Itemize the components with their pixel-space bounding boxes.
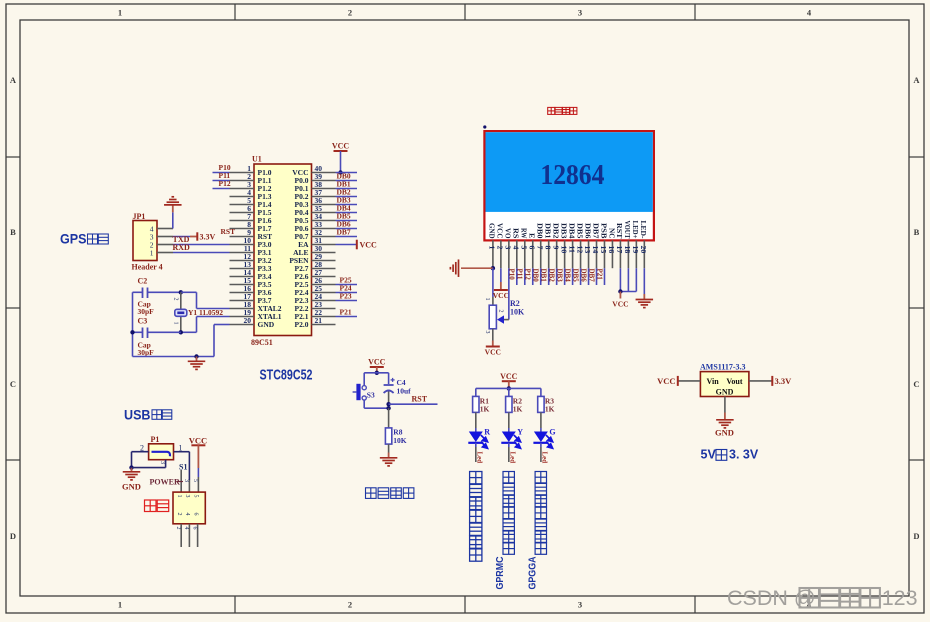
power port VCC under R2 (486, 346, 500, 348)
svg-text:P23: P23 (340, 292, 352, 301)
resistor R1 body (473, 396, 479, 412)
svg-text:DB0: DB0 (532, 269, 540, 283)
svg-text:Vout: Vout (726, 377, 742, 386)
svg-text:GND: GND (488, 223, 496, 239)
svg-text:D: D (913, 531, 919, 541)
svg-text:JP1: JP1 (133, 212, 146, 221)
switch S1 left pin (180, 470, 182, 492)
node ground rail junction (194, 354, 198, 358)
svg-text:3: 3 (484, 331, 490, 334)
svg-text:DB6: DB6 (583, 223, 591, 239)
op IC U1 STC89C52 body (254, 164, 312, 336)
svg-text:RST: RST (615, 223, 623, 239)
wire U1 pin37 DB2 (336, 196, 358, 198)
svg-text:POWER: POWER (150, 478, 180, 487)
wire LCD pin6 (532, 268, 534, 285)
node LED+ VCC junction (618, 289, 622, 293)
wire LCD pin8 (548, 268, 550, 285)
svg-text:DB3: DB3 (559, 223, 567, 239)
svg-text:5: 5 (192, 479, 198, 482)
svg-text:6: 6 (527, 246, 536, 250)
JP1 pin stubs (157, 228, 173, 230)
wire LCD pin13 (588, 268, 590, 285)
wire Vout to 3.3V (749, 380, 772, 382)
svg-text:RS: RS (512, 228, 520, 239)
svg-text:3: 3 (578, 8, 582, 18)
svg-text:1: 1 (150, 249, 154, 258)
R2 wiper arrow (503, 319, 509, 321)
node LCD pin1 GND junction (491, 266, 495, 270)
svg-text:LED+: LED+ (631, 221, 639, 239)
svg-text:GND: GND (716, 388, 734, 397)
svg-text:D: D (10, 531, 16, 541)
svg-text:P21: P21 (595, 269, 603, 281)
svg-text:LED-: LED- (639, 221, 647, 240)
LCD pin stubs 1-20 (492, 240, 494, 268)
svg-text:C2: C2 (138, 277, 148, 286)
svg-text:GND: GND (258, 320, 275, 329)
svg-text:VCC: VCC (485, 348, 501, 357)
svg-text:5: 5 (519, 246, 528, 250)
wire U1 pin38 DB1 (336, 188, 358, 190)
vertical label GPGGA数据有效指示灯 (535, 472, 546, 483)
svg-text:R: R (484, 428, 490, 437)
svg-text:VCC: VCC (332, 142, 350, 151)
LCD module body (484, 131, 654, 240)
wire junction to P1 pin3 (132, 467, 166, 469)
wire U1 pin3 P1.2 (213, 188, 230, 190)
svg-text:1: 1 (488, 246, 497, 250)
svg-text:VCC: VCC (189, 436, 207, 446)
vertical label GPRMC数据有效指示灯 (503, 472, 514, 483)
connector JP1 body (133, 221, 157, 261)
svg-text:GND: GND (122, 482, 141, 492)
svg-text:19: 19 (631, 246, 640, 254)
LED D2 (Y) (502, 432, 516, 443)
svg-text:4: 4 (184, 513, 190, 516)
svg-text:DB1: DB1 (539, 269, 547, 283)
svg-text:A: A (10, 75, 17, 85)
svg-text:S1: S1 (179, 463, 187, 472)
svg-text:DB2: DB2 (551, 223, 559, 239)
wire U1 pin36 DB3 (336, 204, 358, 206)
wire LCD pin18 VOUT (627, 268, 629, 291)
row tick marks right (909, 156, 924, 158)
svg-text:10uf: 10uf (397, 387, 412, 396)
LED cathode wire (475, 447, 477, 462)
wire RXD JP1 pin1 to U1 pin11 (173, 252, 230, 254)
wire U1 pin40 VCC (336, 172, 358, 174)
wire rail down to R3 (540, 388, 542, 396)
ground reset circuit (380, 457, 398, 459)
R8 bottom pin to ground (388, 444, 390, 452)
wire rail down to R1 (475, 388, 477, 396)
svg-text:P12: P12 (219, 179, 231, 188)
svg-text:Y: Y (517, 428, 523, 437)
capacitor C2 (142, 288, 144, 299)
svg-text:16: 16 (607, 246, 616, 254)
svg-text:20: 20 (244, 316, 252, 325)
node C3 left junction (130, 330, 134, 334)
power port 3.3V at JP1 pin3 (190, 236, 197, 238)
svg-text:14: 14 (591, 246, 600, 254)
wire C2 left to corner (133, 291, 143, 293)
svg-text:VCC: VCC (612, 300, 628, 309)
svg-text:VCC: VCC (368, 358, 386, 367)
svg-text:Y1 11.0592: Y1 11.0592 (188, 308, 223, 317)
svg-text:STC89C52: STC89C52 (260, 367, 313, 384)
wire LCD pin2 VCC (500, 268, 502, 282)
node RST junction upper (386, 402, 390, 406)
wire bottom ground rail (133, 356, 215, 358)
svg-text:1K: 1K (480, 405, 490, 414)
wire U1 pin35 DB4 (336, 212, 358, 214)
svg-text:89C51: 89C51 (251, 338, 273, 347)
wire U1 pin39 DB0 (336, 180, 358, 182)
svg-text:3: 3 (578, 600, 582, 610)
R2 bottom pin to VCC (492, 329, 494, 341)
svg-text:2: 2 (348, 600, 352, 610)
svg-text:3: 3 (184, 495, 190, 498)
svg-text:DB4: DB4 (563, 269, 571, 283)
wire JP1 pin4 to ground (172, 212, 174, 228)
svg-text:4: 4 (512, 246, 521, 250)
wire R1 to LED (475, 412, 477, 428)
svg-text:2: 2 (496, 246, 505, 250)
svg-text:DB2: DB2 (547, 269, 555, 283)
resistor R3 body (538, 396, 544, 412)
svg-text:3.3V: 3.3V (200, 233, 216, 242)
switch S1 body (173, 492, 205, 524)
column tick marks bottom (234, 596, 236, 613)
svg-text:GND: GND (715, 428, 734, 438)
svg-text:10K: 10K (510, 308, 525, 317)
wire LED VCC rail (476, 387, 541, 389)
svg-text:GPGGA: GPGGA (527, 557, 538, 590)
node crystal top junction (179, 290, 183, 294)
LED cathode wire (508, 447, 510, 462)
P1 switch symbol (152, 452, 171, 457)
ground AMS1117 (716, 419, 734, 421)
wire LCD pin9 (556, 268, 558, 285)
svg-text:A: A (913, 75, 920, 85)
wire P1 pin1 right (174, 451, 190, 453)
wire U1 pin24 P23 (336, 300, 358, 302)
wire U1 pin2 P1.1 (213, 180, 230, 182)
wire VO column to wiper (508, 319, 510, 321)
svg-text:11: 11 (567, 246, 576, 253)
svg-text:Led: Led (509, 452, 517, 464)
ground at JP1 pin4 (flipped) (172, 205, 174, 212)
power supply label 电源 (red) (145, 500, 157, 512)
C4 bottom pin (388, 392, 390, 404)
svg-text:GPRMC: GPRMC (495, 557, 506, 590)
svg-text:VCC: VCC (657, 376, 675, 386)
svg-text:2: 2 (173, 298, 179, 301)
node VCC pin40 junction (338, 170, 342, 174)
node LED rail junction (507, 386, 511, 390)
svg-text:7: 7 (535, 246, 544, 250)
LED D3 (G) (534, 432, 548, 443)
svg-text:DB6: DB6 (579, 269, 587, 283)
power port VCC under LCD pin17 (619, 292, 621, 299)
svg-text:21: 21 (315, 316, 323, 325)
capacitor C3 (142, 328, 144, 339)
svg-text:DB5: DB5 (571, 269, 579, 283)
svg-text:NC: NC (607, 228, 615, 239)
wire LCD pin1 down to R2 top (492, 268, 494, 297)
svg-text:3: 3 (183, 479, 189, 482)
svg-text:1: 1 (118, 8, 122, 18)
svg-text:1: 1 (484, 298, 490, 301)
wire down to switch S3 (363, 373, 365, 386)
svg-text:17: 17 (615, 246, 624, 254)
svg-text:P1: P1 (151, 435, 160, 444)
node RST junction lower (386, 406, 390, 410)
svg-text:1: 1 (173, 322, 179, 325)
wire LCD pin17 RST (619, 268, 621, 291)
svg-text:18: 18 (623, 246, 632, 254)
svg-text:10: 10 (559, 246, 568, 254)
svg-text:9: 9 (551, 246, 560, 250)
svg-text:20: 20 (639, 246, 648, 254)
regulator AMS1117 body (700, 372, 749, 397)
ground under LCD pin20 (643, 294, 645, 299)
LED cathode wire (540, 447, 542, 462)
wire rail down to R2 (508, 388, 510, 396)
svg-text:C3: C3 (138, 317, 148, 326)
wire U1 pin22 P21 (336, 316, 358, 318)
svg-text:G: G (549, 428, 555, 437)
svg-text:DB4: DB4 (567, 223, 575, 239)
LED D1 (R) (469, 432, 483, 443)
ground left of LCD (rotated) (458, 259, 460, 277)
wire JP1 pin3 to 3.3V (173, 236, 190, 238)
svg-text:DB1: DB1 (543, 223, 551, 239)
wire LCD pin12 (580, 268, 582, 285)
svg-text:3: 3 (504, 246, 513, 250)
svg-text:RST: RST (412, 395, 428, 404)
wire junction to R8 (388, 408, 390, 428)
svg-text:1K: 1K (545, 405, 555, 414)
svg-text:1: 1 (176, 495, 182, 498)
svg-text:2: 2 (498, 310, 504, 313)
svg-text:AMS1117-3.3: AMS1117-3.3 (700, 363, 746, 372)
node VCC reset junction (375, 371, 379, 375)
U1 left pin stubs 1-20 (230, 172, 255, 174)
resistor R8 body (385, 428, 391, 444)
column tick marks top (234, 4, 236, 20)
svg-text:P11: P11 (516, 269, 524, 280)
svg-text:B: B (10, 227, 16, 237)
power port VCC under LCD pin2 (500, 282, 502, 290)
wire LCD pin11 (572, 268, 574, 285)
svg-text:PSB: PSB (599, 223, 607, 239)
U1 right pin stubs 40-21 (312, 172, 336, 174)
svg-text:123: 123 (882, 586, 918, 610)
svg-text:1: 1 (118, 600, 122, 610)
wire VCC to Vin (679, 380, 701, 382)
svg-text:8: 8 (543, 246, 552, 250)
wire C3 right to crystal bottom (148, 331, 181, 333)
wire U1 pin34 DB5 (336, 220, 358, 222)
svg-text:2: 2 (175, 527, 181, 530)
LED emission arrows G (546, 435, 553, 448)
wire RST out (389, 403, 438, 405)
LED emission arrows Y (514, 435, 521, 448)
wire U1 pin1 P1.0 (213, 172, 230, 174)
svg-text:C: C (10, 379, 16, 389)
svg-text:30pF: 30pF (138, 348, 155, 357)
svg-text:3. 3V: 3. 3V (729, 448, 759, 462)
svg-text:15: 15 (599, 246, 608, 254)
wire LCD pin1 to left ground (461, 267, 493, 269)
svg-text:6: 6 (193, 513, 199, 516)
svg-text:P21: P21 (340, 308, 352, 317)
svg-text:2: 2 (348, 8, 352, 18)
wire C3 left (133, 331, 143, 333)
row tick marks left (6, 156, 20, 158)
potentiometer R2 body (489, 305, 496, 329)
wire C2 right to crystal top (148, 291, 181, 293)
svg-text:RW: RW (520, 228, 528, 239)
svg-text:DB7: DB7 (337, 228, 351, 237)
wire U1 pin32 DB7 (336, 236, 358, 238)
svg-text:Led: Led (541, 452, 549, 464)
svg-text:12: 12 (575, 246, 584, 254)
svg-text:10K: 10K (393, 436, 407, 445)
svg-text:12864: 12864 (540, 159, 604, 191)
svg-text:U1: U1 (252, 155, 262, 164)
crystal Y1 pins (180, 292, 182, 309)
wire LCD pin3 VO down (508, 268, 510, 319)
wire R3 to LED (540, 412, 542, 428)
wire LCD pin14 (596, 268, 598, 285)
svg-text:DB3: DB3 (555, 269, 563, 283)
wire U1 pin25 P24 (336, 292, 358, 294)
node crystal bottom junction (179, 330, 183, 334)
svg-text:DB0: DB0 (536, 223, 544, 239)
svg-text:4: 4 (183, 527, 189, 530)
wire crystal top to XTAL2 corner (181, 291, 197, 293)
svg-text:Led: Led (476, 452, 484, 464)
wire LCD pin4 (516, 268, 518, 285)
svg-text:Header 4: Header 4 (132, 263, 163, 272)
wire AMS1117 GND down (724, 397, 726, 413)
wire left vertical C2-C3-ground (132, 292, 134, 356)
wire U1 pin33 DB6 (336, 228, 358, 230)
vertical label 接收数据指示灯 (470, 472, 482, 484)
svg-text:5: 5 (193, 495, 199, 498)
svg-text:E: E (528, 233, 536, 239)
ground USB GND (131, 468, 133, 472)
capacitor C4 polarized (388, 373, 390, 384)
wire U1 pin20 GND down (214, 324, 230, 326)
crystal Y1 body (175, 309, 187, 316)
ground crystal circuit (196, 357, 198, 362)
svg-text:RST: RST (221, 227, 236, 236)
svg-text:5V: 5V (701, 448, 717, 462)
svg-text:GPS: GPS (60, 231, 87, 247)
svg-text:RXD: RXD (173, 243, 191, 252)
power port VCC at EA (356, 240, 358, 250)
svg-text:DB7: DB7 (591, 223, 599, 239)
switch S3 (362, 386, 366, 390)
svg-text:VCC: VCC (500, 372, 518, 381)
wire LCD pin20 LED- to ground (643, 268, 645, 294)
wire U1 pin31 EA to VCC (336, 244, 357, 246)
svg-text:VO: VO (504, 228, 512, 239)
wire LCD pin10 (564, 268, 566, 285)
svg-text:13: 13 (583, 246, 592, 254)
svg-text:6: 6 (192, 527, 198, 530)
svg-text:VCC: VCC (496, 223, 504, 239)
wire TXD JP1 pin2 to U1 pin10 (173, 244, 230, 246)
S1 bottom pins (180, 524, 182, 547)
LCD anchor dot (483, 125, 486, 128)
svg-text:S3: S3 (367, 391, 375, 400)
svg-text:Vin: Vin (707, 377, 720, 386)
wire R2 to LED (508, 412, 510, 428)
svg-text:P2.0: P2.0 (295, 320, 309, 329)
svg-text:C: C (913, 379, 919, 389)
wire U1 pin26 P25 (336, 284, 358, 286)
reset circuit label 复位电路 (366, 488, 377, 499)
svg-text:DB5: DB5 (575, 223, 583, 239)
svg-text:VCC: VCC (493, 291, 509, 300)
power port 3.3V at Vout (771, 376, 773, 386)
wire LCD pin19 LED+ (635, 268, 637, 291)
wire to U1 pin18 XTAL2 (197, 308, 230, 310)
wire LCD pin15 (603, 268, 605, 285)
wire LCD pin5 (524, 268, 526, 285)
connector P1 body (149, 444, 174, 460)
wire P1 pin2 left (132, 451, 149, 453)
svg-text:USB: USB (124, 406, 151, 422)
svg-text:DB7: DB7 (587, 269, 595, 283)
svg-text:VOUT: VOUT (623, 221, 631, 239)
node P1 ground junction (129, 465, 133, 469)
wire LCD pin7 (540, 268, 542, 285)
svg-text:B: B (914, 227, 920, 237)
LED emission arrows R (481, 435, 488, 448)
svg-text:P12: P12 (524, 269, 532, 281)
LCD title 液晶显示 (548, 107, 555, 114)
svg-text:1K: 1K (513, 405, 523, 414)
wire crystal bottom to XTAL1 (181, 331, 197, 333)
svg-text:VCC: VCC (360, 241, 378, 250)
wire switch bottom (363, 400, 365, 408)
svg-text:30pF: 30pF (138, 307, 155, 316)
wire VCC rail reset (364, 372, 388, 374)
svg-text:P10: P10 (508, 269, 516, 281)
svg-text:2: 2 (176, 513, 182, 516)
wire LED+ rail (620, 291, 636, 293)
svg-text:3: 3 (159, 461, 165, 464)
resistor R2 body (506, 396, 512, 412)
power port VCC at Vin (677, 376, 679, 386)
svg-text:3.3V: 3.3V (775, 376, 793, 386)
